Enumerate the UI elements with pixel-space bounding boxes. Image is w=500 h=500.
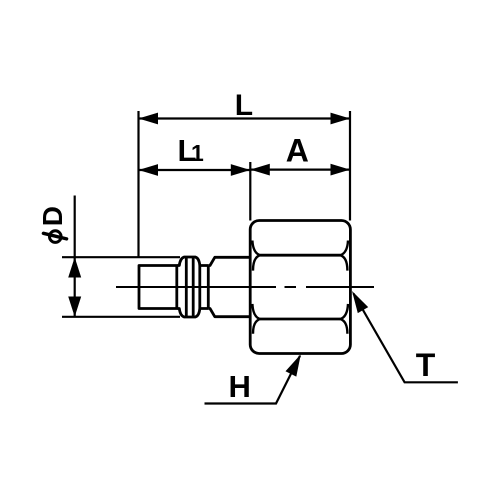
- collar: [208, 257, 250, 316]
- dimension A line: [250, 169, 350, 171]
- leader T arrowhead: [352, 291, 368, 313]
- dimension L line: [139, 117, 351, 119]
- label phiD: diameter symbol circle: [50, 231, 62, 243]
- tip cylinder: [139, 266, 177, 309]
- dimension L arrowheads: [139, 113, 351, 125]
- dimension L1 line: [139, 169, 251, 171]
- dimension A arrowheads: [250, 164, 350, 176]
- svg-text:H: H: [229, 369, 251, 404]
- svg-text:D: D: [37, 206, 68, 226]
- centerline: [116, 286, 374, 288]
- label phiD: diameter symbol slash: [43, 233, 66, 239]
- dimension L1 arrowheads: [139, 164, 251, 176]
- dimension phiD line: [74, 196, 76, 317]
- svg-text:A: A: [286, 132, 309, 168]
- dimension phiD arrowheads: [68, 257, 81, 317]
- svg-text:L: L: [235, 89, 253, 122]
- dimension L extension lines: [139, 111, 351, 257]
- neck groove: [200, 266, 209, 309]
- leader H: [205, 356, 301, 404]
- hex nut body: [250, 221, 350, 354]
- svg-text:T: T: [416, 347, 436, 383]
- hex corner chamfer arcs: [252, 241, 348, 334]
- dimension phiD extension lines: [62, 257, 180, 317]
- leader T: [354, 294, 458, 383]
- ridge barrel: [177, 257, 200, 317]
- svg-text:1: 1: [191, 140, 204, 166]
- leader H arrowhead: [286, 354, 301, 376]
